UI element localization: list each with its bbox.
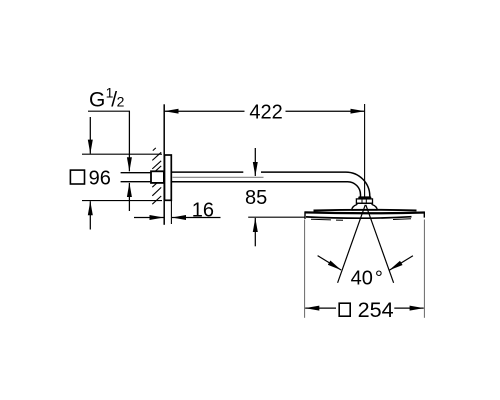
svg-text:85: 85 [245,187,267,209]
svg-text:254: 254 [358,297,394,322]
svg-text:96: 96 [89,168,111,190]
svg-text:2: 2 [117,93,125,109]
svg-text:16: 16 [192,199,214,221]
svg-text:G: G [89,88,105,111]
svg-text:40°: 40° [351,267,383,289]
svg-text:422: 422 [249,102,282,124]
